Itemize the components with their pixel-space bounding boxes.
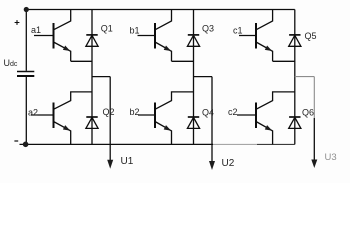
svg-text:a2: a2 <box>28 108 38 118</box>
diode line phase c <box>294 10 296 145</box>
transistor Q2: emitter arrowhead <box>63 125 70 131</box>
wire: output U1 vertical <box>109 77 111 161</box>
transistor Q3: emitter wire <box>155 42 172 61</box>
wire: Q3 emitter to diode node <box>172 60 194 62</box>
wire: bottom DC bus rail (dark left part) <box>20 143 214 145</box>
node: bottom-left junction dot <box>23 142 29 148</box>
wire: bottom DC bus rail (faint middle part) <box>213 143 257 145</box>
transistor Q1 (upper, phase a): base wire <box>34 35 54 37</box>
transistor Q3: base bar <box>154 23 156 49</box>
transistor Q4: emitter wire <box>155 122 172 145</box>
transistor Q1: collector (diagonal + vertical to bus) <box>54 10 71 30</box>
diode D2: triangle <box>86 117 98 128</box>
svg-text:U2: U2 <box>222 158 235 169</box>
plus terminal mark <box>15 20 20 25</box>
svg-text:Q5: Q5 <box>305 31 317 41</box>
transistor Q2 (lower, phase a): base wire <box>31 114 54 116</box>
transistor Q5 (upper, phase c): base wire <box>239 35 256 37</box>
svg-text:a1: a1 <box>31 25 41 35</box>
arrow: U3 output arrowhead <box>311 160 317 169</box>
transistor Q4 (lower, phase b): base wire <box>138 114 155 116</box>
transistor Q6 (lower, phase c): base wire <box>237 114 256 116</box>
transistor Q1: emitter arrowhead <box>63 46 70 52</box>
transistor Q5: base bar <box>255 23 257 49</box>
wire: top DC bus rail <box>24 9 295 11</box>
wire: phase c midpoint tap (faint) <box>295 76 315 78</box>
diode D5: triangle <box>289 35 301 46</box>
wire: phase b midpoint tap <box>194 76 213 78</box>
diode D3: cathode bar <box>188 34 199 36</box>
capacitor C (DC link), top plate <box>17 71 34 73</box>
svg-text:Q1: Q1 <box>101 24 113 34</box>
transistor Q1: base bar <box>53 23 55 49</box>
diode D1: cathode bar <box>86 34 97 36</box>
transistor Q4: emitter arrowhead <box>164 125 171 131</box>
transistor Q6: base bar <box>255 103 257 129</box>
transistor Q6: emitter arrowhead <box>265 125 272 131</box>
diode D6: cathode bar <box>289 116 300 118</box>
transistor Q6: collector <box>256 92 295 109</box>
diode D4: triangle <box>187 117 199 128</box>
diode line phase a (vertical through D1 and D2) <box>91 10 93 145</box>
minus terminal mark <box>14 140 18 142</box>
svg-text:b1: b1 <box>130 26 140 36</box>
transistor Q5: emitter wire <box>256 42 273 61</box>
diode D5: cathode bar <box>289 34 300 36</box>
transistor Q2: emitter wire with corner to bottom bus <box>54 122 71 145</box>
node: top-left junction dot <box>24 7 29 12</box>
svg-text:c1: c1 <box>233 26 243 36</box>
transistor Q4: base bar <box>154 103 156 129</box>
transistor Q3 (upper, phase b): base wire <box>138 35 156 37</box>
svg-text:U3: U3 <box>325 152 337 163</box>
transistor Q2: base bar <box>53 103 55 129</box>
diode D6: triangle <box>289 117 301 128</box>
wire: bottom DC bus rail (right part) <box>257 143 295 145</box>
wire: left DC source vertical (below capacitor) <box>25 77 27 145</box>
capacitor C (DC link), bottom plate <box>17 75 34 77</box>
wire: output U2 vertical <box>211 77 213 162</box>
svg-text:Q4: Q4 <box>202 108 214 118</box>
diode D2: cathode bar <box>86 116 97 118</box>
transistor Q4: collector <box>155 92 194 109</box>
wire: Q1 emitter to diode node <box>71 60 92 62</box>
wire: output U3 vertical (faint upper part) <box>313 77 315 118</box>
wire: phase a midpoint tap <box>92 76 110 78</box>
svg-text:Q2: Q2 <box>103 107 115 117</box>
transistor Q2: collector (diagonal + vertical + horizontal to diode) <box>54 92 93 109</box>
diode D3: triangle <box>187 35 199 46</box>
transistor Q3: collector <box>155 10 172 30</box>
svg-text:c2: c2 <box>228 107 238 117</box>
transistor Q1: emitter wire with corner <box>54 42 71 61</box>
arrow: U2 output arrowhead <box>209 161 215 170</box>
svg-text:Q3: Q3 <box>202 24 214 34</box>
diode line phase b <box>193 10 195 145</box>
diode D4: cathode bar <box>188 116 199 118</box>
wire: left DC source vertical (above capacitor) <box>25 10 27 71</box>
wire: Q5 emitter to diode node <box>273 60 295 62</box>
svg-text:Q6: Q6 <box>302 108 314 118</box>
transistor Q5: collector <box>256 10 273 30</box>
arrow: U1 output arrowhead <box>107 160 113 169</box>
transistor Q3: emitter arrowhead <box>164 46 171 52</box>
transistor Q6: emitter wire <box>256 122 273 145</box>
transistor Q5: emitter arrowhead <box>265 46 272 52</box>
svg-text:U1: U1 <box>121 156 134 167</box>
svg-text:b2: b2 <box>130 107 140 117</box>
diode D1: triangle <box>86 35 98 46</box>
wire: output U3 vertical (dark lower part) <box>313 118 315 161</box>
